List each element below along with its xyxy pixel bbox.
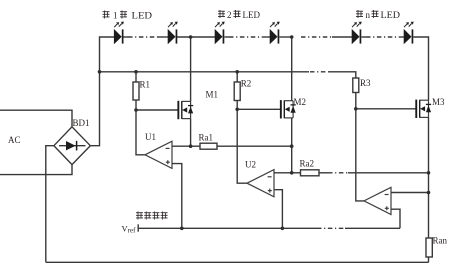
svg-text:LED: LED	[243, 10, 261, 20]
svg-text:n: n	[366, 10, 371, 20]
wire gate node2 down to U2 output	[237, 109, 247, 183]
wire gate node1 down to U1 output	[136, 110, 145, 155]
wire gate node3 down to U3 output	[356, 109, 364, 201]
svg-text:R1: R1	[140, 80, 151, 90]
LED D6	[404, 22, 414, 44]
op-amp U2	[247, 170, 274, 197]
node dot rail Ra chain	[427, 171, 431, 175]
svg-text:LED: LED	[132, 10, 153, 20]
node dot gate3	[354, 107, 358, 111]
svg-text:2: 2	[227, 10, 232, 20]
wire LED5 to LED6 dashed middle	[362, 36, 367, 38]
node dot Vref tap1	[180, 227, 184, 231]
label LED string 2	[218, 10, 260, 20]
wire M1 drain from node1	[190, 37, 192, 101]
svg-text:Vref: Vref	[122, 224, 137, 235]
node dot LED string 1 tap	[189, 35, 193, 39]
svg-text:U2: U2	[245, 160, 256, 170]
LED D4	[270, 22, 280, 44]
wire M1 source down to sense node1	[190, 119, 192, 147]
resistor Ra2	[292, 170, 319, 176]
svg-text:1: 1	[113, 10, 118, 20]
svg-text:Ran: Ran	[433, 236, 448, 246]
svg-text:U1: U1	[145, 132, 156, 142]
wire M3 source rail down to Ran	[428, 117, 430, 238]
transistor M1	[177, 101, 193, 119]
wire LED6 to right rail corner down to M3 drain	[414, 37, 429, 100]
wire M2 source down through node to Ra2 node	[291, 118, 293, 173]
label LED string 1	[103, 10, 153, 20]
wire supply bus dashed continuation	[310, 71, 329, 73]
wire Vref line dashed	[317, 227, 345, 229]
node dot Vref tap2	[281, 227, 285, 231]
node dot gate1	[134, 108, 138, 112]
op-amp U1	[145, 141, 172, 168]
wire node2 dashed to LED5	[301, 36, 332, 38]
node dot R2 top	[235, 70, 239, 74]
transistor M2	[280, 100, 296, 118]
node dot sense1	[189, 144, 193, 148]
LED D2	[168, 22, 178, 44]
svg-text:R3: R3	[360, 78, 371, 88]
wire Vref line solid	[138, 227, 317, 229]
svg-text:M3: M3	[432, 97, 445, 107]
svg-text:LED: LED	[381, 10, 401, 20]
LED D1	[114, 22, 124, 44]
LED D5	[352, 22, 362, 44]
svg-text:AC: AC	[8, 135, 21, 145]
wire U3 non-inverting input to Vref	[391, 209, 400, 228]
wire U1 inverting input stub	[172, 145, 191, 147]
wire U2 non-inverting input to Vref	[274, 190, 282, 229]
wire Ra1 to M2 source node	[217, 145, 292, 147]
wire M2 drain from node2	[291, 37, 293, 101]
wire LED4 to node2	[280, 36, 293, 38]
resistor R1	[133, 72, 139, 110]
resistor R2	[234, 72, 240, 110]
bridge rectifier BD1	[54, 127, 90, 165]
wire U1 non-inverting input to Vref	[172, 164, 182, 229]
wire supply bus to R3	[329, 72, 356, 78]
wire bottom return rail	[46, 261, 429, 263]
wire Vref line right solid	[345, 227, 400, 229]
resistor Ran	[426, 238, 432, 262]
wire AC top input	[0, 110, 72, 126]
LED D3	[215, 22, 225, 44]
wire gate node3 to M3 gate	[356, 108, 416, 110]
node dot bus left	[98, 70, 102, 74]
wire U2 inverting input stub	[274, 172, 292, 174]
svg-text:M1: M1	[206, 90, 219, 100]
wire AC bottom input	[0, 165, 72, 175]
transistor M3	[415, 100, 431, 118]
node dot rail U3 minus	[427, 191, 431, 195]
wire bridge plus output up to LED string 1	[90, 37, 114, 146]
wire LED1 to LED2 with dashed middle	[123, 36, 128, 38]
resistor Ra1	[191, 143, 217, 149]
svg-text:BD1: BD1	[73, 118, 90, 128]
label reference voltage (Chinese)	[136, 212, 168, 220]
node dot gate2	[235, 108, 239, 112]
Vref terminal tick	[137, 224, 139, 231]
label LED string n	[356, 10, 401, 20]
svg-text:R2: R2	[241, 79, 252, 89]
wire bridge minus output to bottom rail	[46, 146, 54, 263]
node dot sense2	[290, 171, 294, 175]
wire gate node1 to M1 gate	[136, 109, 178, 111]
node dot M2 source	[290, 144, 294, 148]
wire LED3 to LED4 dashed middle	[225, 36, 230, 38]
wire supply bus solid	[100, 71, 310, 73]
svg-text:M2: M2	[294, 97, 307, 107]
node dot R1 top	[134, 70, 138, 74]
svg-text:Ra2: Ra2	[300, 159, 315, 169]
wire LED2 to node1 to LED3	[177, 36, 215, 38]
node dot LED string 2 tap	[290, 35, 294, 39]
wire gate node2 to M2 gate	[237, 108, 280, 110]
wire Ra2 chain solid then dashed to right rail	[319, 172, 328, 174]
svg-text:Ra1: Ra1	[199, 133, 214, 143]
wire U3 inverting input stub	[391, 192, 429, 194]
op-amp U3	[364, 187, 391, 214]
resistor R3	[353, 78, 359, 109]
